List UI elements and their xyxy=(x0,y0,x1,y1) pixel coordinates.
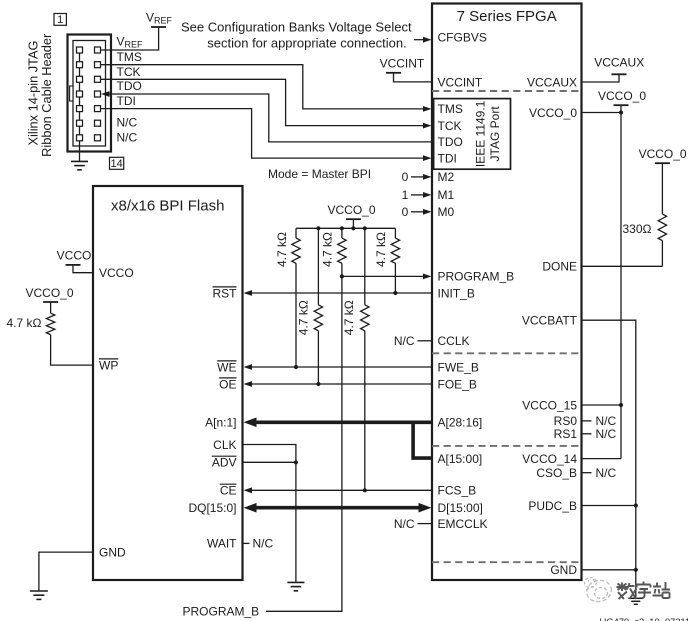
svg-text:CSO_B: CSO_B xyxy=(536,466,577,480)
junction PUDC_B pin xyxy=(634,503,638,507)
label VCCO_0 DONE supply xyxy=(639,147,687,161)
pin label U1 M1 xyxy=(438,188,455,202)
svg-text:D[15:00]: D[15:00] xyxy=(438,501,483,515)
wire EMCCLK N/C stub xyxy=(418,523,432,525)
pin 14 label box xyxy=(110,157,124,170)
svg-text:VCCINT: VCCINT xyxy=(438,75,483,89)
svg-text:N/C: N/C xyxy=(394,334,415,348)
svg-text:PROGRAM_B: PROGRAM_B xyxy=(438,270,515,284)
wire FCS_B to flash CE xyxy=(244,487,432,493)
pin label U2 WAIT xyxy=(207,537,237,551)
wire TMS J1 to FPGA xyxy=(101,65,432,112)
note text line 2 xyxy=(207,35,406,50)
wire note arrow to CFGBVS xyxy=(414,37,432,43)
label J1 rotated name line 1 xyxy=(25,40,40,145)
power symbol VCCINT xyxy=(386,72,401,74)
junction ADV/CLK xyxy=(294,460,298,464)
svg-text:DQ[15:0]: DQ[15:0] xyxy=(188,501,236,515)
svg-text:RS1: RS1 xyxy=(554,427,578,441)
svg-text:TCK: TCK xyxy=(117,65,141,79)
svg-text:TDO: TDO xyxy=(438,135,463,149)
label PROGRAM_B test point xyxy=(183,605,260,619)
pin label U2 CLK xyxy=(213,438,236,452)
pin label U1 VCCBATT xyxy=(522,314,578,328)
label R6 4.7 kOhm xyxy=(7,316,42,330)
svg-text:WAIT: WAIT xyxy=(207,537,237,551)
pin label U2 A[n:1] xyxy=(205,416,236,430)
IC U2 x8/x16 BPI Flash body xyxy=(93,186,243,580)
net label TDI at J1 xyxy=(117,94,136,108)
pin label U2 CE xyxy=(220,484,237,498)
mode constant 1 to M pin at y 194.9 xyxy=(402,188,432,202)
svg-text:4.7 kΩ: 4.7 kΩ xyxy=(297,300,311,335)
svg-text:4.7 kΩ: 4.7 kΩ xyxy=(320,232,334,267)
pin label U1 INIT_B xyxy=(438,286,475,300)
svg-text:A[15:00]: A[15:00] xyxy=(438,452,483,466)
power symbol VCCO_0 for WP xyxy=(43,301,58,303)
power symbol VCCAUX xyxy=(612,73,627,75)
label N/C at WAIT xyxy=(253,537,274,551)
svg-text:Mode = Master BPI: Mode = Master BPI xyxy=(268,167,371,181)
svg-text:PROGRAM_B: PROGRAM_B xyxy=(183,605,260,619)
svg-text:TMS: TMS xyxy=(117,50,142,64)
wire TDI J1 to FPGA xyxy=(101,109,432,161)
pin label U1 CFGBVS xyxy=(438,31,487,45)
label R7 330 Ohm xyxy=(623,222,652,236)
wire FWE_B to flash WE xyxy=(244,364,432,370)
label mode note xyxy=(268,167,371,181)
svg-text:GND: GND xyxy=(99,545,126,559)
svg-text:EMCCLK: EMCCLK xyxy=(438,517,488,531)
mode constant 0 to M pin at y 211.8 xyxy=(402,205,432,219)
pin label U1 TMS xyxy=(438,102,463,116)
bus D[15:00]/DQ[15:0] xyxy=(244,503,432,513)
connector J1 Xilinx 14-pin JTAG ribbon cable header body xyxy=(68,35,112,152)
connector J1 polarization key notch xyxy=(70,86,73,101)
pin label U1 FWE_B xyxy=(438,360,479,374)
svg-text:OE: OE xyxy=(219,377,236,391)
svg-text:N/C: N/C xyxy=(253,537,274,551)
U1 internal bank separator dashed line 3 xyxy=(432,445,582,447)
svg-text:330Ω: 330Ω xyxy=(623,222,652,236)
label R1 4.7 kOhm xyxy=(275,232,289,267)
wire RS0 N/C stub xyxy=(582,414,617,428)
label U1 title xyxy=(457,8,557,25)
svg-text:VCCO_15: VCCO_15 xyxy=(522,398,577,412)
label VCCINT supply xyxy=(380,57,425,71)
svg-text:TDI: TDI xyxy=(438,151,457,165)
svg-text:TCK: TCK xyxy=(438,119,462,133)
svg-text:1: 1 xyxy=(402,188,409,202)
pin label U1 A[28:16] xyxy=(438,416,483,430)
label JTAG port rotated line 2 xyxy=(488,106,502,162)
wire CLK to ground xyxy=(243,445,296,583)
svg-text:WE: WE xyxy=(217,360,236,374)
svg-text:TDI: TDI xyxy=(117,94,136,108)
svg-text:4.7 kΩ: 4.7 kΩ xyxy=(7,316,42,330)
pin label U2 ADV xyxy=(212,456,237,470)
svg-text:IEEE 1149.1: IEEE 1149.1 xyxy=(474,100,488,167)
junction PROGRAM_B at R3 xyxy=(340,274,344,278)
label U2 title xyxy=(111,198,224,215)
svg-text:VCCO_0: VCCO_0 xyxy=(598,89,646,103)
wire CSO_B N/C stub xyxy=(582,466,617,480)
wire VCCBATT/PUDC_B/GND ground rail xyxy=(582,320,636,597)
pin label U1 VCCO_0 xyxy=(529,106,577,120)
label R3 4.7 kOhm xyxy=(320,232,334,267)
pin label U1 RS0 xyxy=(554,414,578,428)
label VCCAUX supply xyxy=(594,55,644,69)
pin label U1 RS1 xyxy=(554,427,578,441)
resistor R4 4.7k (FCS_B pull-up) xyxy=(361,228,369,490)
ground symbol right rail xyxy=(628,598,643,604)
resistor R2 4.7k (FOE_B pull-up) xyxy=(314,228,322,384)
U1 IEEE 1149.1 JTAG port box xyxy=(434,99,511,170)
note text line 1 xyxy=(181,20,412,35)
junction FWE_B at R1 xyxy=(294,365,298,369)
net label TCK at J1 xyxy=(117,65,141,79)
svg-text:N/C: N/C xyxy=(394,517,415,531)
svg-text:M0: M0 xyxy=(438,205,455,219)
svg-text:CCLK: CCLK xyxy=(438,334,470,348)
svg-text:x8/x16 BPI Flash: x8/x16 BPI Flash xyxy=(111,198,224,215)
wire pull-up rail xyxy=(296,227,395,229)
pin label U1 TDO xyxy=(438,135,463,149)
svg-text:N/C: N/C xyxy=(596,466,617,480)
svg-text:FCS_B: FCS_B xyxy=(438,484,477,498)
wire TCK J1 to FPGA xyxy=(101,79,432,128)
net label TMS at J1 xyxy=(117,50,142,64)
pin label U1 CCLK xyxy=(438,334,470,348)
label VREF supply xyxy=(146,11,173,26)
ground symbol CLK/ADV xyxy=(287,582,304,590)
wire RS1 N/C stub xyxy=(582,427,617,441)
svg-text:VCCAUX: VCCAUX xyxy=(594,55,644,69)
wire VREF from J1 pin 1 up to supply xyxy=(101,27,159,50)
svg-text:14: 14 xyxy=(110,158,122,170)
svg-text:See Configuration Banks Voltag: See Configuration Banks Voltage Select xyxy=(181,20,412,35)
wire TDO FPGA to J1 xyxy=(101,91,432,142)
pin label U2 WP with overline xyxy=(99,358,118,372)
label VCCO_0 right rail supply xyxy=(598,89,646,103)
svg-text:VREF: VREF xyxy=(117,35,144,50)
wire DONE to R7 xyxy=(582,265,663,267)
svg-text:N/C: N/C xyxy=(117,130,138,144)
bus A[28:16]/A[n:1] xyxy=(244,418,432,428)
pin label U1 FCS_B xyxy=(438,484,477,498)
junction on pull-up rail at x 318.4 xyxy=(316,226,320,230)
wire FOE_B to flash OE xyxy=(244,381,432,387)
svg-text:N/C: N/C xyxy=(117,116,138,130)
label N/C J1 pin 6 xyxy=(117,116,138,130)
wire INIT_B to flash RST xyxy=(244,290,432,296)
svg-text:FWE_B: FWE_B xyxy=(438,360,479,374)
label R5 4.7 kOhm xyxy=(374,232,388,267)
net label VREF at J1 xyxy=(117,35,144,50)
pin label U1 VCCAUX xyxy=(527,75,577,89)
svg-text:TDO: TDO xyxy=(117,79,142,93)
power symbol VCCO_0 right rail xyxy=(614,104,629,106)
U1 internal bank separator dashed line 1 xyxy=(432,90,582,92)
pin label U2 VCCO xyxy=(99,266,134,280)
svg-text:FOE_B: FOE_B xyxy=(438,377,477,391)
svg-text:4.7 kΩ: 4.7 kΩ xyxy=(374,232,388,267)
svg-text:VCCO: VCCO xyxy=(57,248,92,262)
pin label U1 D[15:00] xyxy=(438,501,483,515)
ground symbol flash GND xyxy=(30,591,48,599)
wire WAIT N/C stub xyxy=(243,542,250,544)
svg-text:UG470_c2_10_072114: UG470_c2_10_072114 xyxy=(600,617,688,621)
label R2 4.7 kOhm xyxy=(297,300,311,335)
wire VCCO_0 rail vertical xyxy=(582,105,622,458)
label VCCO_0 WP supply xyxy=(25,286,73,300)
svg-text:VCCO_0: VCCO_0 xyxy=(25,286,73,300)
svg-text:VREF: VREF xyxy=(146,11,173,26)
pin label U1 A[15:00] xyxy=(438,452,483,466)
junction on pull-up rail at x 353.4 xyxy=(351,226,355,230)
svg-text:1: 1 xyxy=(57,14,63,26)
svg-text:VCCO_0: VCCO_0 xyxy=(327,203,375,217)
pin label U2 OE xyxy=(219,377,236,391)
svg-text:0: 0 xyxy=(402,170,409,184)
connector J1 pin squares (2x7) xyxy=(77,47,101,141)
resistor R1 4.7k (FWE_B pull-up) xyxy=(292,228,300,367)
pin label U1 GND xyxy=(550,563,577,577)
IC U1 7 Series FPGA body xyxy=(432,4,582,581)
power symbol VCCO_0 pull-up rail xyxy=(346,218,361,220)
pin label U1 VCCINT xyxy=(438,75,483,89)
svg-text:N/C: N/C xyxy=(596,427,617,441)
mode constant 0 to M pin at y 176.9 xyxy=(402,170,432,184)
ground symbol below J1 xyxy=(71,161,88,169)
svg-text:GND: GND xyxy=(550,563,577,577)
pin label U1 CSO_B xyxy=(536,466,577,480)
pin label U1 EMCCLK xyxy=(438,517,488,531)
svg-text:VCCAUX: VCCAUX xyxy=(527,75,577,89)
label J1 rotated name line 2 xyxy=(39,33,54,157)
wire VCCINT to FPGA xyxy=(394,73,432,82)
svg-text:M1: M1 xyxy=(438,188,455,202)
label VCCO_0 pull-up rail xyxy=(327,203,375,217)
svg-text:M2: M2 xyxy=(438,170,455,184)
pin label U1 VCCO_14 xyxy=(522,452,577,466)
label VCCO flash supply xyxy=(57,248,92,262)
pin label U1 TCK xyxy=(438,119,462,133)
power symbol VCCO_0 for DONE xyxy=(655,162,670,164)
watermark text (CJK) stylized strokes xyxy=(617,582,671,600)
resistor R5 4.7k (INIT_B pull-up) xyxy=(391,228,399,293)
bus A[15:00] branch xyxy=(413,421,431,459)
label N/C J1 pin 7 xyxy=(117,130,138,144)
svg-text:RST: RST xyxy=(213,286,238,300)
resistor R6 4.7k WP pull-up xyxy=(46,302,93,365)
resistor R3 4.7k (PROGRAM_B pull-up) xyxy=(338,228,346,276)
resistor R7 330 ohm DONE pull-up xyxy=(658,163,666,266)
svg-text:N/C: N/C xyxy=(596,414,617,428)
wire ADV to CLK net xyxy=(243,461,296,463)
label JTAG port rotated line 1 xyxy=(474,100,488,167)
junction on pull-up rail at x 341.9 xyxy=(340,226,344,230)
pin label U1 FOE_B xyxy=(438,377,477,391)
svg-text:4.7 kΩ: 4.7 kΩ xyxy=(342,300,356,335)
junction FCS_B at R4 xyxy=(363,488,367,492)
label R4 4.7 kOhm xyxy=(342,300,356,335)
pin label U1 VCCO_15 xyxy=(522,398,577,412)
svg-text:Ribbon Cable Header: Ribbon Cable Header xyxy=(39,33,54,157)
power symbol VCCO flash xyxy=(66,264,81,266)
junction on pull-up rail at x 364.8 xyxy=(363,226,367,230)
wire J1 ground bus through left pin column xyxy=(79,50,81,161)
pin label U1 M0 xyxy=(438,205,455,219)
junction FOE_B at R2 xyxy=(316,382,320,386)
svg-text:VCCINT: VCCINT xyxy=(380,57,425,71)
pin label U2 GND xyxy=(99,545,126,559)
pin label U2 DQ[15:0] xyxy=(188,501,236,515)
wire VCCAUX to supply xyxy=(582,74,620,82)
junction VCCO_15 pin xyxy=(619,403,623,407)
pin label U1 PUDC_B xyxy=(528,499,577,513)
svg-text:ADV: ADV xyxy=(212,456,237,470)
svg-text:A[28:16]: A[28:16] xyxy=(438,416,483,430)
junction INIT_B at R5 xyxy=(393,291,397,295)
label N/C at EMCCLK xyxy=(394,517,415,531)
pin 1 label box xyxy=(54,14,66,27)
svg-text:CFGBVS: CFGBVS xyxy=(438,31,487,45)
svg-text:PUDC_B: PUDC_B xyxy=(528,499,577,513)
svg-text:JTAG Port: JTAG Port xyxy=(488,106,502,162)
pin label U2 WE xyxy=(217,360,236,374)
watermark logo sketch xyxy=(584,578,613,605)
svg-text:VCCBATT: VCCBATT xyxy=(522,314,578,328)
svg-text:WP: WP xyxy=(99,358,118,372)
label N/C at CCLK xyxy=(394,334,415,348)
power symbol VREF xyxy=(151,26,166,28)
wire VCCO_0 stem to rail xyxy=(352,219,354,228)
svg-text:VCCO_0: VCCO_0 xyxy=(639,147,687,161)
pin label U1 M2 xyxy=(438,170,455,184)
wire flash GND to ground xyxy=(39,552,93,591)
svg-text:0: 0 xyxy=(402,205,409,219)
svg-text:RS0: RS0 xyxy=(554,414,578,428)
wire CCLK N/C stub xyxy=(418,340,432,342)
wire PROGRAM_B net xyxy=(266,274,432,612)
pin label U1 TDI xyxy=(438,151,457,165)
svg-text:7 Series FPGA: 7 Series FPGA xyxy=(457,8,557,25)
svg-text:VCCO: VCCO xyxy=(99,266,134,280)
svg-text:DONE: DONE xyxy=(542,260,577,274)
pin label U2 RST xyxy=(213,286,238,300)
net label TDO at J1 xyxy=(117,79,142,93)
svg-text:INIT_B: INIT_B xyxy=(438,286,475,300)
svg-text:VCCO_0: VCCO_0 xyxy=(529,106,577,120)
watermark doc number xyxy=(600,617,688,621)
svg-text:4.7 kΩ: 4.7 kΩ xyxy=(275,232,289,267)
junction GND pin xyxy=(634,568,638,572)
svg-text:CLK: CLK xyxy=(213,438,236,452)
junction VCCO_0 pin xyxy=(619,110,623,114)
svg-text:section for appropriate connec: section for appropriate connection. xyxy=(207,35,406,50)
pin label U1 PROGRAM_B xyxy=(438,270,515,284)
U1 internal bank separator dashed line 4 xyxy=(432,561,582,563)
pin label U1 DONE xyxy=(542,260,577,274)
svg-text:TMS: TMS xyxy=(438,102,463,116)
U1 internal bank separator dashed line 2 xyxy=(432,352,582,354)
wire VCCO to flash xyxy=(73,265,93,273)
svg-text:A[n:1]: A[n:1] xyxy=(205,416,236,430)
svg-text:CE: CE xyxy=(220,484,237,498)
svg-text:VCCO_14: VCCO_14 xyxy=(522,452,577,466)
